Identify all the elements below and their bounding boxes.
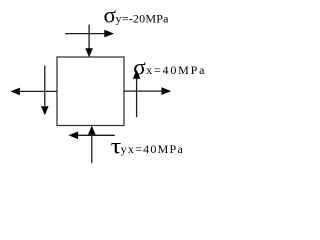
stress element square — [57, 57, 124, 126]
sigma-y top normal stress arrow (down into top face) — [85, 25, 93, 58]
svg-text:yx=40MPa: yx=40MPa — [121, 142, 184, 156]
svg-text:x=40MPa: x=40MPa — [146, 63, 206, 77]
tau left shear arrow (pointing down) — [41, 65, 49, 115]
sigma-x left normal stress arrow (pointing left) — [10, 88, 57, 96]
label tau-yx = 40 MPa — [111, 133, 184, 158]
label sigma-y = -20 MPa — [104, 3, 170, 28]
svg-text:σ: σ — [133, 54, 146, 79]
sigma-y bottom normal stress arrow (up into bottom face) — [88, 126, 96, 163]
tau top shear arrow (pointing right) — [65, 30, 114, 38]
label sigma-x = 40 MPa — [133, 54, 206, 79]
sigma-x right normal stress arrow (pointing right) — [124, 87, 171, 95]
tau right shear arrow (pointing up) — [133, 70, 141, 117]
svg-text:y=-20MPa: y=-20MPa — [116, 11, 170, 25]
tau-yx bottom shear arrow (pointing left) — [68, 132, 114, 140]
